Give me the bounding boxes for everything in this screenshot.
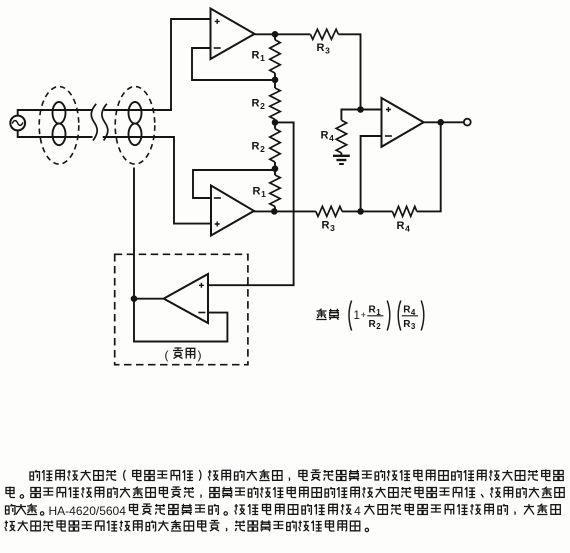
wire U2 feedback <box>193 170 273 198</box>
node H <box>437 119 444 126</box>
AC source V1 <box>10 116 25 131</box>
svg-text:2: 2 <box>260 101 265 111</box>
op-amp U3 <box>382 98 424 147</box>
svg-text:R: R <box>317 42 325 54</box>
node G <box>357 208 364 215</box>
svg-text:HA-4620/5604: HA-4620/5604 <box>49 504 127 518</box>
wire bottom conductor <box>18 130 93 137</box>
node B <box>272 77 279 84</box>
svg-text:R: R <box>322 220 330 232</box>
wire U1 output <box>255 33 311 35</box>
cable shield 2 (dashed) <box>115 87 155 165</box>
svg-text:+: + <box>361 310 366 320</box>
node D <box>272 165 279 172</box>
svg-text:): ) <box>198 348 202 362</box>
resistor R4 feedback <box>392 206 416 216</box>
resistor R3 bottom <box>316 206 342 216</box>
resistor R1 bottom <box>270 175 280 207</box>
node E <box>271 208 278 215</box>
optional dashed box <box>115 254 248 364</box>
caption paragraph <box>5 470 565 532</box>
resistor R4 shunt <box>336 120 346 153</box>
svg-text:R: R <box>253 186 261 198</box>
svg-text:4: 4 <box>329 133 334 143</box>
svg-text:2: 2 <box>376 322 381 331</box>
node A <box>272 31 279 38</box>
svg-text:3: 3 <box>330 223 335 233</box>
op-amp U4 (guard driver, points left) <box>164 274 208 323</box>
wire feedback down <box>417 122 441 211</box>
wire mid tap to U4 <box>208 122 294 285</box>
svg-text:1: 1 <box>261 189 266 199</box>
ground <box>333 156 350 164</box>
resistor R1 top <box>270 40 280 73</box>
wire R3b to node <box>342 210 361 212</box>
svg-text:4: 4 <box>354 504 361 518</box>
node I <box>131 295 138 302</box>
wire U3 output <box>424 121 464 123</box>
output terminal <box>464 119 471 126</box>
cable break marks <box>91 104 97 141</box>
label gain formula <box>316 301 424 332</box>
svg-text:R: R <box>252 141 260 153</box>
wire shield drive <box>133 168 135 299</box>
svg-text:1: 1 <box>260 53 265 63</box>
resistor R2 upper <box>270 88 280 119</box>
svg-text:1: 1 <box>354 310 360 322</box>
wire U1 feedback <box>192 48 273 80</box>
wire node to R4g <box>341 110 360 121</box>
svg-text:R: R <box>397 220 405 232</box>
svg-text:3: 3 <box>325 46 330 56</box>
resistor R3 top <box>310 29 338 39</box>
svg-text:R: R <box>252 98 260 110</box>
svg-text:(: ( <box>165 348 169 362</box>
wire U2 output <box>254 210 316 212</box>
wire R3 to node <box>338 34 360 109</box>
svg-text:R: R <box>252 50 260 62</box>
wire U3 minus input <box>361 136 382 211</box>
twisted pair 1 <box>53 102 66 145</box>
node F <box>357 106 364 113</box>
svg-text:2: 2 <box>260 144 265 154</box>
wire node to U3 plus <box>361 109 382 111</box>
label optional <box>165 348 202 362</box>
op-amp U1 <box>211 9 255 60</box>
svg-text:4: 4 <box>405 224 410 234</box>
resistor R2 lower <box>270 129 280 162</box>
wire top conductor <box>18 110 93 116</box>
cable shield 1 (dashed) <box>39 87 79 165</box>
wire U4 feedback <box>134 299 227 342</box>
svg-text:3: 3 <box>411 322 416 331</box>
twisted pair 2 <box>129 102 142 145</box>
svg-text:R: R <box>321 130 329 142</box>
op-amp U2 <box>211 186 254 236</box>
node C <box>272 119 279 126</box>
wire chain vertical <box>274 34 276 211</box>
wire U4 output <box>134 298 164 300</box>
wire R4 to node <box>361 210 393 212</box>
